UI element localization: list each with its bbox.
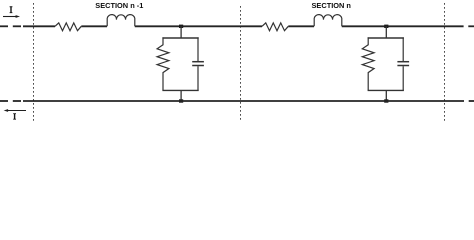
wire: top-left dashed continuation [0, 25, 21, 27]
wire: shunt top bar (section n) [368, 37, 404, 39]
wire: bottom rail solid [23, 100, 464, 102]
wire: top rail solid [23, 25, 464, 27]
wire: shunt top stub (section n-1) [180, 26, 182, 38]
inductor L series (section n) [314, 15, 342, 27]
svg-text:SECTION n: SECTION n [312, 1, 352, 10]
wire: shunt top bar (section n-1) [162, 37, 198, 39]
wire: shunt top stub (section n) [385, 26, 387, 38]
boundary dashed line right (x=444) [444, 3, 446, 121]
resistor R shunt (section n) [362, 37, 374, 90]
node: junction dot bottom (section n shunt) [384, 99, 388, 102]
label SECTION n [312, 1, 352, 10]
wire: bottom-left dashed continuation [0, 100, 21, 102]
wire: top-right dashed continuation [468, 25, 474, 27]
current arrow I (top left) [3, 6, 20, 18]
inductor L series (section n-1) [107, 15, 135, 27]
node: junction dot bottom (section n-1 shunt) [179, 99, 183, 102]
resistor R series (section n) [262, 23, 288, 31]
boundary dashed line left (x=33) [33, 3, 35, 121]
resistor R shunt (section n-1) [157, 37, 169, 90]
node: junction dot top (section n-1 shunt) [179, 25, 183, 28]
current arrow I (bottom left, return) [4, 109, 26, 120]
node: junction dot top (section n shunt) [384, 25, 388, 28]
label SECTION n -1 [95, 1, 143, 10]
boundary dashed line middle (x=240) [240, 6, 242, 121]
wire: shunt bottom stub (section n-1) [180, 90, 182, 101]
svg-text:SECTION n -1: SECTION n -1 [95, 1, 143, 10]
wire: shunt bottom bar (section n) [368, 89, 404, 91]
resistor R series (section n-1) [55, 23, 81, 31]
wire: shunt bottom stub (section n) [385, 90, 387, 101]
capacitor C shunt (section n-1) [192, 37, 204, 90]
wire: bottom-right dashed continuation [469, 100, 474, 102]
capacitor C shunt (section n) [397, 37, 409, 90]
wire: shunt bottom bar (section n-1) [162, 89, 198, 91]
